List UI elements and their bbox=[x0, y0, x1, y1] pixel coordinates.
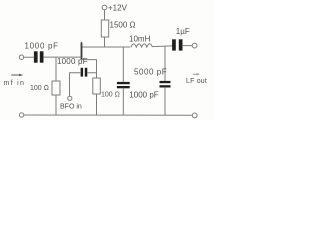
wire C3 top lead bbox=[122, 47, 124, 82]
wire ground rail bbox=[24, 114, 192, 116]
svg-text:100 Ω: 100 Ω bbox=[101, 91, 120, 98]
node gate junction / wire R1 drop bbox=[55, 57, 57, 81]
wire C4 top lead bbox=[164, 47, 166, 81]
wire drain rail bbox=[82, 46, 130, 48]
wire BFO riser bbox=[70, 73, 81, 96]
wire resistor to rail bbox=[104, 37, 106, 47]
wire C2 to source node bbox=[87, 72, 96, 74]
svg-text:mf in: mf in bbox=[4, 80, 26, 87]
terminal BFO in bbox=[68, 96, 72, 100]
svg-text:LF out: LF out bbox=[186, 78, 207, 85]
svg-text:1500 Ω: 1500 Ω bbox=[110, 21, 136, 30]
resistor R3 1500 ohm bbox=[101, 20, 108, 37]
svg-text:100 Ω: 100 Ω bbox=[30, 85, 49, 92]
wire terminal to C1 bbox=[24, 56, 34, 58]
resistor R1 100 ohm bbox=[52, 81, 60, 95]
svg-text:+12V: +12V bbox=[108, 4, 128, 13]
wire R2 to ground rail bbox=[96, 94, 98, 115]
capacitor C3 1000 pF bbox=[117, 82, 130, 88]
terminal ground left bbox=[19, 113, 23, 117]
capacitor C2 1000 pF BFO coupling bbox=[81, 68, 88, 77]
arrow LF out bbox=[193, 73, 200, 75]
wire C4 bottom lead bbox=[164, 88, 166, 116]
transistor Q1 FET bar bbox=[81, 43, 83, 59]
svg-text:5000 pF: 5000 pF bbox=[134, 68, 167, 77]
svg-text:1000 pF: 1000 pF bbox=[129, 90, 158, 99]
wire source lead bbox=[82, 60, 96, 78]
svg-text:1000 pF: 1000 pF bbox=[25, 42, 59, 51]
wire rail after inductor bbox=[152, 45, 172, 48]
capacitor C1 1000 pF input bbox=[34, 51, 44, 62]
resistor R2 100 ohm bbox=[93, 78, 101, 94]
wire R1 to ground rail bbox=[55, 95, 57, 115]
svg-text:1µF: 1µF bbox=[176, 27, 190, 36]
wire C3 bottom lead bbox=[122, 88, 124, 115]
capacitor C4 5000 pF bbox=[160, 81, 171, 88]
terminal ground right bbox=[192, 113, 197, 118]
wire supply lead bbox=[104, 10, 106, 20]
terminal mf in bbox=[19, 55, 23, 59]
terminal LF out bbox=[192, 43, 197, 48]
svg-text:1000 pF: 1000 pF bbox=[57, 57, 88, 66]
wire gate lead bbox=[44, 56, 81, 58]
svg-text:10mH: 10mH bbox=[129, 34, 151, 43]
capacitor C5 1uF output bbox=[172, 39, 182, 50]
svg-text:BFO in: BFO in bbox=[60, 103, 82, 110]
arrow mf in bbox=[12, 74, 23, 77]
terminal +12V bbox=[102, 5, 107, 10]
wire C5 to output terminal bbox=[183, 45, 193, 47]
inductor L1 10mH bbox=[131, 44, 152, 47]
